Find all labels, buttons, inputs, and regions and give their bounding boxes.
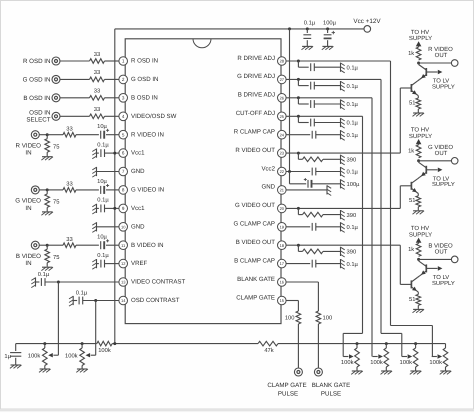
svg-text:100µ: 100µ	[323, 20, 337, 27]
wire pin 10 GND	[97, 226, 119, 228]
capacitor 0.1u (pin 25 ADJ)	[298, 116, 358, 126]
svg-text:PULSE: PULSE	[321, 391, 341, 398]
svg-text:0.1µ: 0.1µ	[97, 197, 109, 204]
ground (pin 28 ADJ cap)	[341, 63, 345, 73]
wire pin 21 GND	[286, 189, 327, 191]
node Vcc1 rail junction pin 6	[113, 152, 116, 155]
svg-text:100k: 100k	[98, 347, 111, 354]
wire Q1 emitter to Q2 collector (R)	[417, 80, 419, 82]
wire G video out	[419, 160, 452, 162]
svg-text:B VIDEO OUT: B VIDEO OUT	[236, 239, 276, 246]
capacitor 0.1u (pin 13 VIDEO CONTRAST)	[36, 271, 119, 286]
svg-text:OUT: OUT	[435, 248, 448, 255]
node Vcc1 rail junction pin 9	[113, 207, 116, 210]
capacitor 0.1u top decoupling	[303, 20, 315, 46]
wire G video out base riser	[399, 186, 401, 209]
svg-text:0.1µ: 0.1µ	[347, 83, 359, 90]
terminal B VIDEO IN	[16, 241, 41, 267]
resistor 100 (pin 16)	[316, 311, 332, 324]
svg-text:G CLAMP CAP: G CLAMP CAP	[233, 221, 275, 228]
svg-text:OUT: OUT	[435, 150, 448, 157]
svg-text:B OSD IN: B OSD IN	[131, 94, 158, 101]
svg-text:GND: GND	[131, 223, 145, 230]
resistor 51 (B stage)	[409, 292, 421, 309]
potentiometer 100k (x=82.1)	[65, 344, 84, 369]
terminal Vcc +12V	[353, 18, 381, 32]
svg-text:1k: 1k	[408, 246, 414, 253]
ground (pin 23 390)	[341, 155, 345, 165]
supply arrow HV (B)	[416, 238, 422, 244]
wire pin 20 video out line	[286, 207, 400, 209]
wire pin 26 ADJ line	[286, 97, 372, 99]
ground (pot x=44.8)	[39, 369, 51, 372]
svg-text:0.1µ: 0.1µ	[97, 141, 109, 148]
ground (pin 9 Vcc1 cap)	[92, 204, 96, 214]
svg-text:13: 13	[121, 280, 126, 285]
pot wiper (x=415.6)	[402, 354, 412, 358]
capacitor 0.1u (pin 14 OSD CONTRAST)	[73, 289, 119, 304]
ground (pin 25 ADJ cap)	[341, 118, 345, 128]
ground (pot x=357)	[351, 371, 363, 374]
svg-text:28: 28	[280, 59, 285, 64]
resistor 390 (pin 23)	[298, 153, 356, 163]
wire bottom bus	[16, 343, 446, 345]
wire B video out base riser	[399, 245, 401, 284]
svg-text:24: 24	[280, 132, 285, 137]
svg-text:17: 17	[280, 261, 285, 266]
svg-text:R VIDEO OUT: R VIDEO OUT	[235, 147, 275, 154]
svg-text:SUPPLY: SUPPLY	[432, 280, 455, 287]
node pot junction x=445.5	[445, 343, 447, 345]
svg-text:10: 10	[121, 224, 126, 229]
svg-text:IN: IN	[25, 260, 31, 267]
ground (pin 22 100u)	[341, 179, 345, 189]
svg-text:0.1µ: 0.1µ	[97, 252, 109, 259]
svg-text:0.1µ: 0.1µ	[347, 169, 359, 176]
svg-text:33: 33	[66, 236, 72, 243]
wire drive adj feed (pin27 to pot3)	[381, 333, 402, 356]
pot wiper (x=386.3)	[373, 354, 383, 358]
resistor 100 (pin 15)	[285, 311, 301, 324]
svg-text:PULSE: PULSE	[278, 391, 298, 398]
potentiometer 100k (x=44.8)	[28, 344, 47, 369]
terminal B OSD IN	[23, 94, 60, 102]
capacitor 100u top electrolytic	[323, 20, 337, 46]
svg-text:R DRIVE ADJ: R DRIVE ADJ	[237, 55, 275, 62]
pot wiper (x=357)	[343, 354, 353, 358]
ground (G VIDEO IN 75)	[41, 212, 53, 215]
terminal R VIDEO OUT	[428, 46, 458, 66]
svg-text:R OSD IN: R OSD IN	[131, 58, 158, 65]
node R VIDEO IN junction	[46, 133, 49, 136]
svg-text:R VIDEO: R VIDEO	[16, 142, 42, 149]
wire pin 28 ADJ vertical	[390, 61, 392, 326]
resistor 75 (R VIDEO IN)	[45, 135, 60, 157]
svg-text:10µ: 10µ	[97, 178, 107, 185]
capacitor 0.1u (pin 28 ADJ)	[298, 61, 358, 71]
node B VIDEO IN junction	[46, 244, 49, 247]
svg-text:75: 75	[53, 255, 59, 261]
node pot junction x=386.3	[385, 342, 388, 345]
svg-text:100k: 100k	[400, 359, 413, 366]
svg-text:390: 390	[347, 157, 357, 164]
svg-text:4: 4	[122, 114, 125, 119]
potentiometer 100k (x=357)	[341, 344, 359, 371]
node pin 28 ADJ junction	[297, 60, 300, 63]
svg-text:SUPPLY: SUPPLY	[409, 35, 432, 42]
terminal G VIDEO OUT	[428, 144, 458, 164]
capacitor 0.1u (pin 24 R CLAMP CAP)	[286, 131, 358, 139]
svg-text:Vcc +12V: Vcc +12V	[353, 18, 381, 25]
svg-text:75: 75	[53, 200, 59, 206]
ground (pin 20 390)	[341, 210, 345, 220]
ground (pin 26 ADJ cap)	[341, 99, 345, 109]
svg-text:51: 51	[409, 297, 415, 303]
svg-text:0.1µ: 0.1µ	[304, 20, 316, 27]
wire pin1 input	[60, 60, 119, 62]
svg-text:IN: IN	[25, 150, 31, 157]
wire R video out base riser	[399, 88, 401, 153]
wire R video out	[419, 62, 452, 64]
svg-text:33: 33	[94, 106, 100, 113]
ground (B stage 51)	[413, 309, 425, 312]
ground (pin 24 cap)	[341, 130, 345, 140]
node bus / Vcc rail junction	[113, 342, 116, 345]
terminal R OSD IN	[23, 57, 60, 65]
svg-text:25: 25	[280, 114, 285, 119]
svg-text:51: 51	[409, 198, 415, 204]
transistor Q2 (G driver)	[400, 179, 418, 194]
svg-text:75: 75	[53, 144, 59, 150]
resistor 47k (bus)	[258, 341, 278, 354]
wire pin 25 ADJ vertical	[362, 116, 364, 333]
svg-text:GND: GND	[131, 168, 145, 175]
svg-text:G VIDEO OUT: G VIDEO OUT	[235, 202, 275, 209]
node pin 25 ADJ junction	[297, 115, 300, 118]
svg-text:16: 16	[280, 280, 285, 285]
svg-text:390: 390	[347, 249, 357, 256]
svg-text:23: 23	[280, 151, 285, 156]
wire pin 23 video out line	[286, 152, 400, 154]
node B output junction	[417, 258, 420, 261]
ground (R VIDEO IN 75)	[41, 157, 53, 160]
svg-text:Vcc2: Vcc2	[261, 165, 275, 172]
wire pin 15 CLAMP GATE	[286, 301, 298, 312]
svg-text:3: 3	[122, 95, 125, 100]
svg-text:GND: GND	[261, 184, 275, 191]
label TO LV SUPPLY (R)	[432, 78, 455, 91]
resistor 390 (pin 18)	[298, 245, 356, 255]
svg-text:9: 9	[122, 206, 125, 211]
svg-text:33: 33	[94, 88, 100, 95]
ground (pin 22 0.1u)	[341, 167, 345, 177]
wire pin 27 ADJ vertical	[380, 79, 382, 333]
wire pin3 input	[60, 97, 119, 99]
svg-text:51: 51	[409, 100, 415, 106]
ground (pot x=415.6)	[410, 371, 422, 374]
potentiometer 100k (x=415.6)	[400, 344, 418, 371]
node pin 26 ADJ junction	[297, 96, 300, 99]
svg-text:TO HV: TO HV	[411, 127, 429, 134]
svg-text:OUT: OUT	[435, 52, 448, 59]
svg-text:1k: 1k	[408, 50, 414, 57]
svg-text:0.1µ: 0.1µ	[347, 120, 359, 127]
svg-text:33: 33	[66, 125, 72, 132]
ground (B VIDEO IN 75)	[41, 267, 53, 270]
capacitor 1u (bus filter)	[4, 344, 21, 365]
transistor Q1 (G cascode)	[419, 161, 443, 178]
resistor 390 (pin 20)	[298, 208, 356, 218]
wire pin 18 video out line	[286, 244, 400, 246]
resistor 33 (R VIDEO IN)	[63, 125, 76, 137]
svg-text:0.1µ: 0.1µ	[347, 64, 359, 71]
svg-text:0.1µ: 0.1µ	[76, 289, 88, 296]
node pin 14 wiper junction	[94, 299, 97, 302]
pot wiper (x=445.5)	[432, 354, 442, 358]
wire Q1 emitter to Q2 collector (B)	[417, 276, 419, 278]
capacitor 10u (R VIDEO IN)	[97, 123, 109, 139]
node pin 27 ADJ junction	[297, 78, 300, 81]
wire R VIDEO IN to node	[39, 134, 47, 136]
resistor 1k (R stage)	[408, 47, 421, 60]
svg-text:CLAMP GATE: CLAMP GATE	[236, 294, 275, 301]
wire B VIDEO IN series	[47, 244, 119, 246]
capacitor 0.1u (pin 12 VREF)	[97, 252, 119, 268]
ground (pot x=386.3)	[381, 371, 393, 374]
label TO LV SUPPLY (G)	[432, 175, 455, 188]
svg-text:26: 26	[280, 95, 285, 100]
wire B VIDEO IN to node	[39, 244, 47, 246]
resistor 33 (G VIDEO IN)	[63, 181, 76, 193]
svg-text:CLAMP GATE: CLAMP GATE	[267, 382, 306, 389]
svg-text:SUPPLY: SUPPLY	[432, 181, 455, 188]
ground (pin 12 VREF cap)	[92, 259, 96, 269]
svg-text:100: 100	[323, 315, 333, 322]
capacitor 100u (pin 22 Vcc2)	[290, 172, 361, 189]
wire pin 16 BLANK GATE	[286, 282, 318, 311]
node pin 23 junction	[297, 152, 300, 155]
node pin 20 junction	[297, 207, 300, 210]
capacitor 0.1u (pin 9 Vcc1)	[97, 197, 119, 213]
svg-text:19: 19	[280, 224, 285, 229]
svg-text:27: 27	[280, 77, 285, 82]
ground (R stage 51)	[413, 113, 425, 116]
svg-text:100k: 100k	[28, 352, 41, 359]
capacitor 0.1u (pin 22 Vcc2)	[312, 168, 358, 176]
label TO HV SUPPLY (G)	[409, 127, 432, 140]
capacitor 0.1u (pin 17 CLAMP CAP)	[286, 260, 358, 268]
terminal G VIDEO IN	[15, 186, 41, 212]
transistor Q1 (R cascode)	[419, 63, 443, 80]
ground (1u cap)	[10, 365, 22, 368]
ground (pot x=82.1)	[76, 369, 88, 372]
label TO HV SUPPLY (B)	[409, 225, 432, 238]
svg-text:G VIDEO: G VIDEO	[15, 198, 41, 205]
svg-text:10µ: 10µ	[97, 123, 107, 130]
svg-text:TO HV: TO HV	[411, 29, 429, 36]
svg-text:R CLAMP CAP: R CLAMP CAP	[234, 129, 275, 136]
resistor 1k (B stage)	[408, 243, 421, 256]
ground (pin 27 ADJ cap)	[341, 81, 345, 91]
svg-text:G DRIVE ADJ: G DRIVE ADJ	[237, 73, 275, 80]
terminal B VIDEO OUT	[428, 243, 458, 263]
wire drive adj feed (pin28 to pot4)	[391, 326, 433, 357]
terminal G OSD IN	[23, 75, 60, 83]
svg-text:0.1µ: 0.1µ	[347, 261, 359, 268]
terminal OSD IN SELECT	[26, 110, 60, 124]
svg-text:390: 390	[347, 212, 357, 219]
terminal BLANK GATE PULSE	[312, 368, 350, 398]
svg-text:5: 5	[122, 132, 125, 137]
svg-text:33: 33	[94, 69, 100, 76]
capacitor 10u (G VIDEO IN)	[97, 178, 109, 194]
wire R VIDEO IN series	[47, 134, 119, 136]
node G VIDEO IN junction	[46, 188, 49, 191]
svg-text:6: 6	[122, 151, 125, 156]
wire pin 13 contrast pot riser	[57, 282, 59, 355]
IC U1 pin circles with numbers 1-28	[119, 57, 286, 305]
svg-text:0.1µ: 0.1µ	[347, 101, 359, 108]
svg-text:7: 7	[122, 169, 125, 174]
ground (pin 21)	[327, 185, 331, 195]
svg-text:1: 1	[122, 59, 125, 64]
terminal R VIDEO IN	[16, 131, 42, 157]
wire pin 15 to terminal	[297, 324, 299, 368]
svg-text:100µ: 100µ	[347, 181, 361, 188]
supply arrow HV (G)	[416, 139, 422, 145]
capacitor 0.1u (pin 6 Vcc1)	[97, 141, 119, 157]
svg-text:100k: 100k	[370, 359, 383, 366]
wire pin4 input	[60, 115, 119, 117]
node G output junction	[417, 159, 420, 162]
node pin 22 Vcc2 junction	[288, 170, 291, 173]
svg-text:33: 33	[66, 181, 72, 188]
pot wiper (x=82.1)	[86, 353, 96, 357]
svg-text:1µ: 1µ	[4, 354, 11, 360]
resistor 51 (R stage)	[409, 96, 421, 113]
ground (pin 10)	[92, 222, 96, 232]
svg-text:100k: 100k	[341, 359, 354, 366]
wire pin 22 Vcc2	[286, 171, 310, 173]
wire pin 28 ADJ line	[286, 60, 390, 62]
wire pin2 input	[60, 78, 119, 80]
svg-text:0.1µ: 0.1µ	[347, 224, 359, 231]
resistor 75 (G VIDEO IN)	[45, 190, 60, 212]
svg-text:G VIDEO IN: G VIDEO IN	[131, 187, 164, 194]
svg-text:R VIDEO IN: R VIDEO IN	[131, 131, 164, 138]
ground (top 0.1u cap)	[302, 46, 314, 49]
svg-text:VREF: VREF	[131, 260, 148, 267]
resistor 51 (G stage)	[409, 194, 421, 211]
capacitor 0.1u (pin 19 CLAMP CAP)	[286, 223, 358, 231]
wire pin 26 ADJ vertical	[371, 98, 373, 357]
terminal CLAMP GATE PULSE	[267, 368, 306, 398]
resistor 75 (B VIDEO IN)	[45, 245, 60, 267]
capacitor 0.1u (pin 26 ADJ)	[298, 98, 358, 108]
wire Q1 emitter to Q2 collector (G)	[417, 177, 419, 179]
svg-text:0.1µ: 0.1µ	[347, 132, 359, 139]
svg-text:B VIDEO IN: B VIDEO IN	[131, 242, 164, 249]
svg-text:0.1µ: 0.1µ	[38, 271, 50, 278]
ground (pin 17 cap)	[341, 259, 345, 269]
ground (pin 18 390)	[341, 247, 345, 257]
potentiometer 100k (x=386.3)	[370, 344, 388, 371]
pot wiper (x=44.8)	[48, 353, 58, 357]
node Vcc2 riser junction	[288, 27, 291, 30]
svg-text:B VIDEO: B VIDEO	[16, 253, 41, 260]
resistor 33 (B VIDEO IN)	[63, 236, 76, 248]
ground (top 100u cap)	[322, 46, 334, 49]
wire G VIDEO IN series	[47, 189, 119, 191]
svg-text:100: 100	[285, 315, 295, 322]
supply arrow HV (R)	[416, 41, 422, 47]
svg-text:1k: 1k	[408, 148, 414, 155]
svg-text:12: 12	[121, 261, 126, 266]
op-amp/IC U1 body (28-pin video amplifier)	[125, 39, 281, 324]
wire G VIDEO IN to node	[39, 189, 47, 191]
svg-text:22: 22	[280, 169, 285, 174]
svg-text:15: 15	[280, 298, 285, 303]
svg-text:B DRIVE ADJ: B DRIVE ADJ	[238, 92, 275, 99]
svg-text:OSD CONTRAST: OSD CONTRAST	[131, 297, 180, 304]
resistor 33 (pin 3)	[90, 88, 105, 101]
node pot junction x=357	[356, 342, 359, 345]
svg-text:SUPPLY: SUPPLY	[409, 231, 432, 238]
wire Vcc2 riser	[289, 29, 291, 172]
svg-text:18: 18	[280, 243, 285, 248]
node pin 13 wiper junction	[57, 281, 60, 284]
wire pin 25 ADJ line	[286, 115, 362, 117]
svg-text:14: 14	[121, 298, 126, 303]
potentiometer 100k (x=445.5)	[429, 344, 447, 371]
ground (G stage 51)	[413, 211, 425, 214]
svg-text:G OSD IN: G OSD IN	[131, 76, 158, 83]
svg-text:VIDEO/OSD SW: VIDEO/OSD SW	[131, 113, 177, 120]
wire cut-off adj feed (pin25 to pot1)	[343, 333, 362, 356]
transistor Q2 (B driver)	[400, 278, 418, 293]
svg-text:SELECT: SELECT	[26, 117, 50, 124]
resistor 33 (pin 2)	[90, 69, 105, 82]
svg-text:33: 33	[94, 51, 100, 58]
node pot junction x=44.8	[43, 342, 46, 345]
IC U1 internal pin function labels	[131, 55, 276, 304]
svg-text:VIDEO CONTRAST: VIDEO CONTRAST	[131, 279, 185, 286]
svg-text:SUPPLY: SUPPLY	[432, 83, 455, 90]
svg-text:B CLAMP CAP: B CLAMP CAP	[234, 257, 275, 264]
label TO HV SUPPLY (R)	[409, 29, 432, 42]
ground (pin 13 cap)	[31, 277, 35, 287]
ground (pin 7)	[92, 167, 96, 177]
svg-text:47k: 47k	[264, 347, 273, 354]
svg-text:Vcc1: Vcc1	[131, 205, 145, 212]
resistor 33 (pin 4)	[90, 106, 105, 119]
wire pin 27 ADJ line	[286, 78, 381, 80]
wire pin 7 GND	[97, 171, 119, 173]
node pot junction x=415.6	[414, 342, 417, 345]
svg-text:IN: IN	[25, 205, 31, 212]
ground (pin 19 cap)	[341, 222, 345, 232]
capacitor 10u (B VIDEO IN)	[97, 234, 109, 250]
svg-text:R OSD IN: R OSD IN	[23, 58, 51, 65]
svg-text:100k: 100k	[429, 359, 442, 366]
wire pin 16 to terminal	[317, 324, 319, 368]
svg-text:BLANK GATE: BLANK GATE	[312, 382, 350, 389]
wire pin 14 contrast pot riser	[95, 301, 97, 356]
resistor 100k (bus horizontal)	[97, 341, 112, 354]
ground (pin 14 cap)	[69, 296, 73, 306]
svg-text:8: 8	[122, 188, 125, 193]
svg-text:Vcc1: Vcc1	[131, 150, 145, 157]
